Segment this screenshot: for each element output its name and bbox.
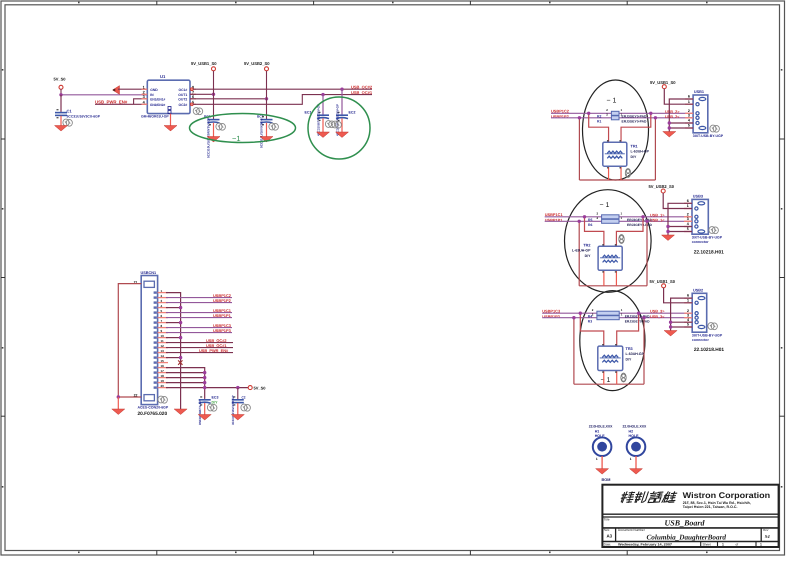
- wire pin3 USBP1P2: [166, 302, 232, 304]
- svg-text:3IXT-USB-BY-UGP: 3IXT-USB-BY-UGP: [693, 134, 724, 138]
- svg-text:R2: R2: [597, 115, 601, 119]
- svg-text:D/Y: D/Y: [212, 400, 219, 404]
- svg-text:D/Y: D/Y: [626, 358, 633, 362]
- svg-text:Document Number: Document Number: [618, 528, 646, 532]
- USBCN1 pin 21 pad: [144, 281, 154, 287]
- junction shield pin5: [666, 230, 669, 233]
- wire D- into choke loop: [578, 221, 580, 285]
- svg-text:OC2#: OC2#: [178, 103, 187, 107]
- svg-text:USB_1>: USB_1>: [650, 213, 665, 217]
- svg-text:6: 6: [688, 95, 690, 99]
- junction pin7: [179, 321, 182, 324]
- wire pin6 USBP1P1: [166, 317, 232, 319]
- company chinese logo: [620, 492, 677, 503]
- junction D-: [578, 220, 581, 223]
- svg-text:USB_2>: USB_2>: [665, 110, 680, 114]
- junction OC2/EC1: [321, 93, 324, 96]
- svg-text:ERJ3GEY0-PAD: ERJ3GEY0-PAD: [622, 120, 647, 124]
- svg-text:4: 4: [688, 119, 690, 123]
- svg-text:4: 4: [687, 222, 689, 226]
- junction pin17: [203, 371, 206, 374]
- svg-text:TR1: TR1: [631, 144, 638, 148]
- svg-text:S4: S4: [765, 534, 771, 539]
- capacitor EC3: [204, 398, 206, 399]
- svg-text:22.10218.H01: 22.10218.H01: [694, 347, 724, 353]
- junction pin18: [203, 376, 206, 379]
- junction D-: [572, 316, 575, 319]
- choke bottom pins: [608, 166, 610, 180]
- no-connect circles U1 pins 8 and 5: [190, 88, 193, 91]
- svg-text:H2: H2: [629, 429, 634, 433]
- svg-text:1: 1: [630, 457, 632, 461]
- svg-text:5V_USB1_S0: 5V_USB1_S0: [191, 61, 217, 66]
- wire D- row: [551, 117, 693, 119]
- GP stamp near U1: [193, 108, 203, 115]
- junction D+ out: [641, 215, 644, 218]
- group circle EC caps: [308, 97, 370, 159]
- wire pin5 USBP1C1: [166, 312, 232, 314]
- svg-text:5V_USB1_S0: 5V_USB1_S0: [650, 279, 676, 284]
- svg-text:20.F0765.020: 20.F0765.020: [138, 411, 168, 417]
- wire OUT2 stub: [190, 98, 267, 100]
- wire rail up to D- out: [646, 221, 648, 285]
- transformer TR1: [603, 142, 627, 166]
- svg-text:ERJ3GEY0-PAD: ERJ3GEY0-PAD: [625, 314, 650, 318]
- port arrow GND input: [113, 86, 120, 95]
- svg-text:USB2: USB2: [693, 288, 703, 292]
- svg-text:USB_PWR_EN#: USB_PWR_EN#: [199, 348, 229, 353]
- svg-text:USBP1P1: USBP1P1: [213, 313, 232, 318]
- wire gnd bus pin1: [166, 293, 181, 409]
- svg-text:D/Y: D/Y: [585, 254, 592, 258]
- svg-text:USB_3>: USB_3>: [650, 310, 665, 314]
- wire D+ row: [551, 112, 693, 114]
- svg-text:TR2: TR2: [583, 243, 590, 247]
- svg-text:OC1#: OC1#: [178, 88, 187, 92]
- svg-text:R6: R6: [588, 223, 592, 227]
- svg-text:D/Y: D/Y: [631, 155, 638, 159]
- wire arrow to U1 pin1: [118, 88, 147, 90]
- ground at BC1: [207, 137, 220, 143]
- svg-text:5V_S0: 5V_S0: [254, 386, 267, 391]
- svg-text:L-63UH-GP: L-63UH-GP: [626, 352, 645, 356]
- wire 5V bus pin16: [166, 368, 205, 398]
- wire OC1 net: [193, 88, 372, 90]
- junction shield pin5: [668, 126, 671, 129]
- wire pin13 USB_PWR_EN#: [166, 352, 233, 354]
- junction D- out: [654, 116, 657, 119]
- junction D+: [587, 112, 590, 115]
- title block dividers: [615, 528, 617, 542]
- ground at connector: [662, 235, 675, 241]
- svg-text:3CC31U/16V/X5R-GP: 3CC31U/16V/X5R-GP: [231, 395, 235, 425]
- svg-text:4: 4: [687, 318, 689, 322]
- junction pin4: [179, 306, 182, 309]
- svg-text:L-63UH-GP: L-63UH-GP: [572, 249, 591, 253]
- svg-text:EN2/EN2#: EN2/EN2#: [150, 103, 165, 107]
- svg-text:IN: IN: [150, 93, 154, 97]
- svg-text:USBCN1: USBCN1: [141, 271, 157, 275]
- svg-text:A3: A3: [607, 533, 613, 538]
- title block frame: [602, 485, 778, 547]
- wire pin17 to 5V bus: [166, 372, 205, 374]
- svg-text:ACES-CON20-6GP: ACES-CON20-6GP: [138, 406, 169, 410]
- svg-text:− 1: − 1: [601, 377, 611, 384]
- choke bottom pins: [603, 270, 605, 286]
- wire D+ into choke: [589, 113, 609, 142]
- wire pin4 to gnd bus: [166, 307, 181, 309]
- svg-text:5V_USB1_S0: 5V_USB1_S0: [650, 80, 676, 85]
- usb connector USB1: [693, 95, 708, 133]
- resistor R3: [597, 316, 619, 320]
- svg-text:R4: R4: [588, 314, 592, 318]
- junction at C1: [59, 93, 62, 96]
- svg-text:of: of: [736, 543, 739, 547]
- U1 pin stubs: [142, 89, 197, 104]
- group ellipse circuit port1: [583, 80, 649, 180]
- svg-text:5CC310U/16V/X5R-6: 5CC310U/16V/X5R-6: [260, 118, 264, 148]
- GP stamps EC1 EC2: [325, 121, 335, 128]
- ground at USBCN1 shield: [112, 409, 125, 415]
- svg-text:−1: −1: [232, 134, 241, 143]
- svg-text:USB1: USB1: [694, 90, 704, 94]
- wire 5V to pin1: [664, 288, 693, 303]
- svg-text:− 1: − 1: [600, 202, 610, 209]
- svg-text:ERJ3GEY0-PAD: ERJ3GEY0-PAD: [622, 115, 647, 119]
- wire pin12 USB_OC#1: [166, 347, 233, 349]
- wire D+ into choke: [585, 217, 604, 246]
- svg-text:USB_OC#1: USB_OC#1: [351, 90, 373, 95]
- junction D-: [578, 116, 581, 119]
- svg-text:R3: R3: [588, 320, 592, 324]
- svg-text:TR3: TR3: [626, 347, 633, 351]
- wire choke to D+ out: [621, 113, 651, 142]
- junction OUT2: [265, 97, 268, 100]
- wire 5V to pin1: [663, 193, 692, 209]
- svg-text:USBP1P2: USBP1P2: [213, 298, 232, 303]
- svg-text:5: 5: [687, 227, 689, 231]
- svg-text:1: 1: [687, 298, 689, 302]
- svg-text:Taipei Hsien 221, Taiwan, R.O.: Taipei Hsien 221, Taiwan, R.O.C.: [683, 505, 738, 509]
- connector pin stubs: [684, 298, 692, 327]
- wire 5V_S0 to U1 IN: [61, 94, 147, 96]
- wire shield loop: [118, 284, 141, 397]
- wire OUT1 stub: [190, 93, 214, 95]
- power net 5V_S0 right: [248, 386, 252, 390]
- svg-text:1: 1: [688, 100, 690, 104]
- svg-text:R5: R5: [588, 218, 592, 222]
- wire D+ row: [542, 312, 692, 314]
- ground at pin bus: [174, 409, 187, 415]
- GP stamp choke: [621, 373, 626, 382]
- ground at BC2: [260, 137, 273, 143]
- resistor R1: [611, 116, 619, 120]
- svg-text:Size: Size: [604, 528, 610, 532]
- svg-text:USB_2<: USB_2<: [665, 115, 680, 119]
- svg-text:2: 2: [687, 309, 689, 313]
- wire shield pins 6 4 5: [669, 99, 693, 132]
- junction D+ out: [649, 112, 652, 115]
- resistor R6: [602, 219, 619, 223]
- svg-text:2: 2: [688, 109, 690, 113]
- svg-text:Date:: Date:: [604, 543, 612, 547]
- ground at EC2: [336, 132, 349, 138]
- svg-text:3: 3: [687, 313, 689, 317]
- svg-text:connector: connector: [692, 338, 710, 342]
- svg-text:22.10218.H01: 22.10218.H01: [694, 250, 724, 256]
- svg-text:1: 1: [722, 543, 724, 547]
- capacitor C2: [237, 388, 239, 399]
- GP stamp choke: [625, 169, 630, 178]
- svg-text:L-63UH-GP: L-63UH-GP: [631, 150, 650, 154]
- svg-text:EC1: EC1: [305, 110, 312, 114]
- wire pin11 USB_OC#2: [166, 342, 233, 344]
- USBCN1 pin notches: [154, 291, 157, 388]
- mounting hole H1: [593, 437, 612, 456]
- GP stamp choke: [619, 235, 624, 244]
- svg-text:ERJ3GEY0-PAD: ERJ3GEY0-PAD: [625, 320, 650, 324]
- junction shield: [117, 395, 120, 398]
- svg-text:1: 1: [596, 457, 598, 461]
- ground at connector: [663, 132, 676, 138]
- junction D- out: [642, 316, 645, 319]
- wire choke to D+ out: [617, 313, 639, 346]
- svg-text:EC3: EC3: [212, 395, 219, 399]
- connector pin stubs: [685, 99, 693, 128]
- group ellipse circuit port3: [580, 291, 645, 391]
- title block row lines: [602, 513, 778, 515]
- svg-text:1: 1: [760, 543, 762, 547]
- wire choke to D+ out: [616, 217, 643, 246]
- junction shield pin4: [668, 121, 671, 124]
- USBCN1 pin stubs: [158, 293, 168, 388]
- wire choke bottom rail: [579, 179, 655, 181]
- svg-text:5V_USB2_S0: 5V_USB2_S0: [244, 61, 270, 66]
- wire choke bottom rail: [579, 285, 647, 287]
- svg-text:5V_S0: 5V_S0: [54, 77, 67, 82]
- connector pin stubs: [684, 203, 692, 231]
- svg-text:R1: R1: [597, 120, 601, 124]
- svg-text:C2: C2: [242, 395, 246, 399]
- ground at connector: [664, 331, 677, 337]
- svg-text:U1: U1: [160, 74, 166, 79]
- svg-text:5: 5: [688, 124, 690, 128]
- svg-text:USB_PWR_EN#: USB_PWR_EN#: [95, 99, 128, 104]
- wire D+ into choke: [580, 313, 603, 346]
- svg-text:1: 1: [687, 204, 689, 208]
- junction rail/C2: [236, 386, 239, 389]
- svg-text:4SC310U/TA/B/16V-GP: 4SC310U/TA/B/16V-GP: [317, 104, 321, 136]
- capacitor C1: [60, 95, 62, 111]
- svg-text:22.0HOLE.XXX: 22.0HOLE.XXX: [623, 424, 647, 428]
- junction shield pin5: [669, 325, 672, 328]
- svg-text:4SC310U/TA/B/16V-GP: 4SC310U/TA/B/16V-GP: [336, 104, 340, 136]
- svg-text:USB_1<: USB_1<: [650, 219, 665, 223]
- svg-text:H1: H1: [595, 429, 600, 433]
- usb connector USB2: [692, 293, 707, 332]
- svg-text:3CC31U16V3CX-6GP: 3CC31U16V3CX-6GP: [67, 115, 101, 119]
- svg-text:GND: GND: [150, 88, 158, 92]
- mounting hole H2: [627, 437, 646, 456]
- wire shield pins 6 4 5: [671, 298, 693, 330]
- svg-text:DNI/8M/8M/TA-GP: DNI/8M/8M/TA-GP: [198, 400, 202, 425]
- wire choke bottom rail: [574, 383, 644, 385]
- svg-text:5: 5: [687, 323, 689, 327]
- wire shield pins 6 4 5: [668, 203, 692, 235]
- junction OC1/EC2: [340, 88, 343, 91]
- wire rail up to D- out: [643, 318, 645, 385]
- svg-text:USB_3<: USB_3<: [650, 315, 665, 319]
- wire D- into choke loop: [573, 318, 575, 385]
- junction pin10: [179, 336, 182, 339]
- wire USB_PWR_EN# to U1 EN pins: [95, 103, 147, 105]
- GP stamp connector: [708, 323, 718, 330]
- svg-text:Rev: Rev: [763, 528, 769, 532]
- junction shield pin4: [666, 225, 669, 228]
- svg-text:6: 6: [687, 294, 689, 298]
- capacitor EC1: [322, 95, 324, 114]
- svg-text:3: 3: [687, 217, 689, 221]
- svg-text:6: 6: [687, 199, 689, 203]
- wire pin18 to 5V bus: [166, 377, 205, 379]
- svg-text:Title: Title: [604, 518, 610, 522]
- svg-text:USB3: USB3: [693, 194, 703, 198]
- USBCN1 pin 22 pad: [144, 395, 154, 401]
- choke bottom pins: [603, 371, 605, 385]
- ground at EC3: [198, 415, 211, 421]
- transformer TR3: [598, 346, 623, 370]
- junction D- out: [645, 220, 648, 223]
- svg-text:GM-M/OR01U-GP: GM-M/OR01U-GP: [141, 114, 169, 118]
- wire D+ row: [545, 216, 692, 218]
- svg-text:5V_USB2_S0: 5V_USB2_S0: [649, 184, 675, 189]
- USBCN1 pin numbers: [161, 289, 165, 388]
- wire pin19 to 5V bus: [166, 382, 205, 384]
- junction pin14: [179, 356, 182, 359]
- svg-text:C1: C1: [67, 109, 73, 114]
- junction rail/EC3: [203, 386, 206, 389]
- wire pin10 to gnd bus: [166, 337, 181, 339]
- svg-text:3: 3: [688, 113, 690, 117]
- no-connect X pin15: [178, 360, 182, 364]
- junction shield pin4: [669, 321, 672, 324]
- svg-text:2: 2: [687, 212, 689, 216]
- svg-text:Wistron Corporation: Wistron Corporation: [683, 491, 771, 500]
- GP stamp connector: [709, 227, 719, 234]
- wire rail up to D- out: [654, 118, 656, 180]
- ground at C1: [55, 126, 68, 132]
- wire pin7 to gnd bus: [166, 322, 181, 324]
- group ellipse circuit port2: [565, 190, 652, 293]
- svg-text:OUT2: OUT2: [178, 97, 187, 101]
- wire pin8 USBP1C3: [166, 327, 232, 329]
- svg-text:BOM: BOM: [602, 478, 611, 482]
- resistor R2: [611, 111, 619, 115]
- wire pin14 to gnd bus: [166, 357, 181, 359]
- transformer TR2: [598, 246, 622, 270]
- junction D+ out: [637, 312, 640, 315]
- ground at H1: [596, 469, 609, 475]
- svg-text:EC2: EC2: [349, 110, 356, 114]
- wire D- into choke loop: [578, 118, 580, 180]
- wire OC2 net: [193, 95, 372, 105]
- junction D+: [579, 312, 582, 315]
- svg-text:USB_OC#2: USB_OC#2: [351, 84, 373, 89]
- wire D- row: [542, 317, 692, 319]
- resistor R5: [602, 215, 619, 219]
- wire pin9 USBP1P3: [166, 332, 232, 334]
- wire pin20 5V rail: [166, 387, 250, 389]
- group ellipse -1 bypass caps: [190, 114, 296, 143]
- usb connector USB3: [692, 199, 708, 234]
- svg-text:Columbia_DaughterBoard: Columbia_DaughterBoard: [647, 534, 727, 542]
- svg-text:ERJ3GEY0-PAD: ERJ3GEY0-PAD: [627, 223, 652, 227]
- GP stamp connector: [710, 125, 720, 132]
- svg-text:Wednesday, February 14, 2007: Wednesday, February 14, 2007: [618, 543, 672, 547]
- svg-text:Sheet: Sheet: [703, 543, 711, 547]
- svg-text:− 1: − 1: [607, 98, 617, 105]
- svg-text:USBP1P3: USBP1P3: [213, 328, 232, 333]
- ground at C2: [231, 415, 244, 421]
- wire D- row: [545, 220, 692, 222]
- junction pin19: [203, 381, 206, 384]
- ground at U1: [170, 114, 172, 126]
- resistor R4: [597, 311, 619, 315]
- svg-text:USB_Board: USB_Board: [665, 519, 706, 528]
- svg-text:EN1/EN1#: EN1/EN1#: [150, 97, 165, 101]
- wire 5V to pin1: [664, 89, 693, 105]
- capacitor EC2: [341, 89, 343, 114]
- GP stamp USBCN1: [158, 396, 168, 403]
- svg-text:connector: connector: [692, 240, 710, 244]
- ground at H2: [630, 469, 643, 475]
- svg-text:OUT1: OUT1: [178, 93, 187, 97]
- wire pin2 USBP1C2: [166, 297, 232, 299]
- junction D+: [583, 215, 586, 218]
- svg-text:21F, 88, Sec.1, Hsin Tai Wu Rd: 21F, 88, Sec.1, Hsin Tai Wu Rd., Hsichih…: [683, 501, 751, 505]
- IC U1 power switch: [147, 80, 190, 113]
- svg-text:22.0HOLE.XXX: 22.0HOLE.XXX: [589, 424, 613, 428]
- junction OUT1: [212, 93, 215, 96]
- ground at EC1: [317, 132, 330, 138]
